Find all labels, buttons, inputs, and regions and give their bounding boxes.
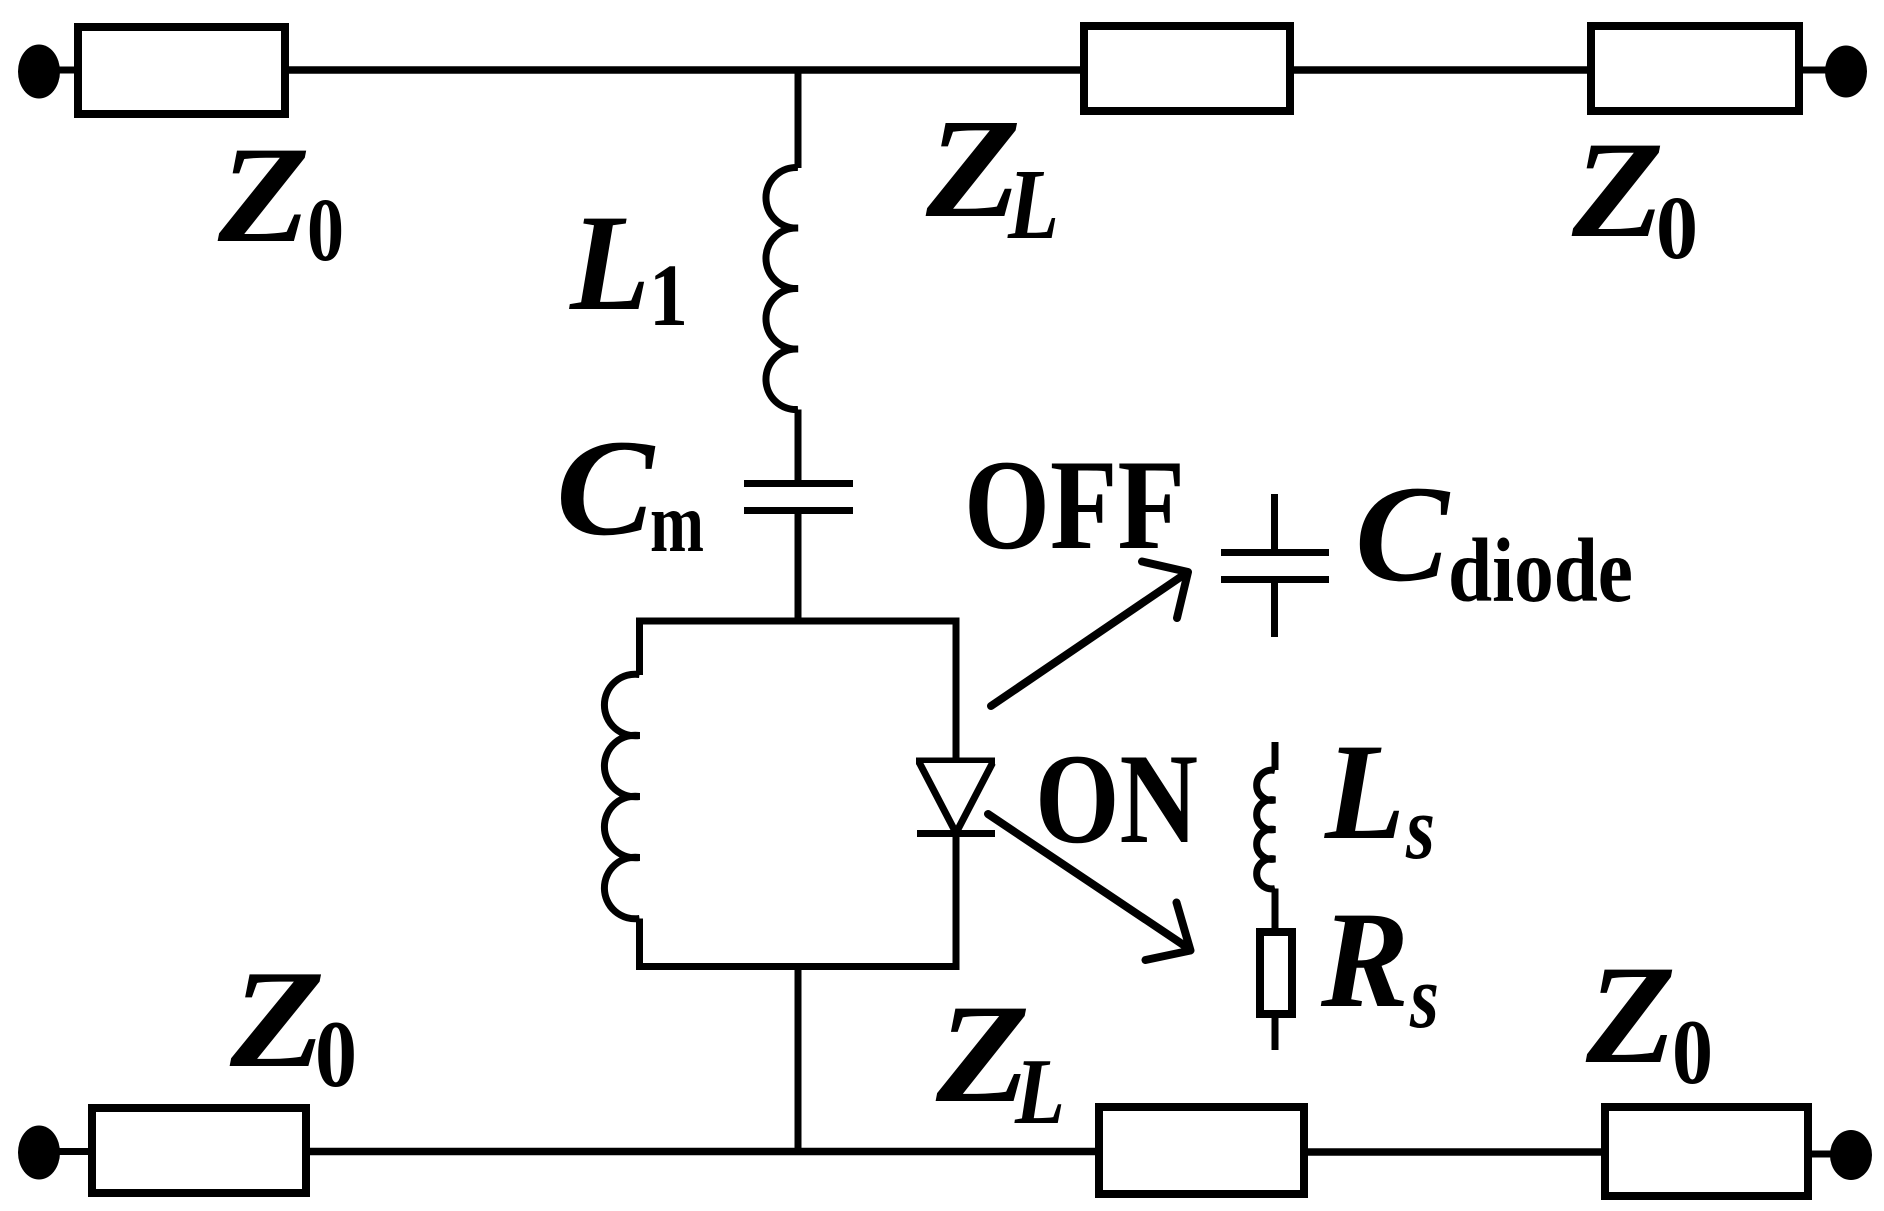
svg-text:0: 0 — [1656, 179, 1698, 278]
svg-text:L: L — [568, 186, 650, 339]
svg-text:L: L — [1323, 715, 1405, 868]
svg-text:diode: diode — [1448, 520, 1633, 621]
svg-text:Z: Z — [1571, 113, 1664, 266]
svg-text:Z: Z — [217, 118, 310, 271]
svg-text:C: C — [1355, 457, 1451, 610]
svg-text:s: s — [1409, 948, 1439, 1047]
svg-text:0: 0 — [315, 1001, 357, 1107]
svg-text:s: s — [1405, 779, 1435, 878]
svg-text:L: L — [1014, 1040, 1065, 1144]
svg-text:C: C — [556, 411, 656, 564]
svg-text:1: 1 — [649, 247, 688, 345]
svg-text:Z: Z — [1585, 937, 1676, 1093]
svg-text:R: R — [1320, 883, 1409, 1036]
svg-text:0: 0 — [307, 181, 344, 280]
svg-text:Z: Z — [925, 89, 1021, 247]
svg-text:L: L — [1007, 148, 1059, 260]
svg-text:ON: ON — [1035, 727, 1198, 870]
svg-text:Z: Z — [229, 942, 325, 1097]
svg-text:0: 0 — [1672, 1001, 1713, 1103]
svg-text:OFF: OFF — [964, 433, 1185, 576]
svg-text:m: m — [650, 476, 704, 570]
